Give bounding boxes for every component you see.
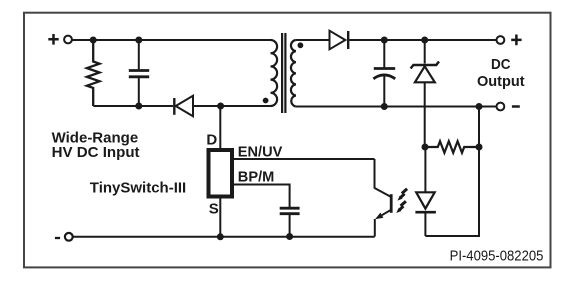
svg-text:TinySwitch-III: TinySwitch-III xyxy=(90,179,186,196)
diode clamp D xyxy=(174,96,270,116)
text pin BP/M xyxy=(238,169,274,186)
transistor optocoupler photo xyxy=(375,159,392,237)
zener output feedback xyxy=(411,40,439,147)
node junction cap out bottom xyxy=(381,103,388,110)
text Wide-Range HV DC Input xyxy=(52,129,140,161)
wire feedback right column xyxy=(425,107,479,237)
node junction top-cap xyxy=(135,37,142,44)
text pin EN/UV xyxy=(238,144,282,161)
text pin D xyxy=(206,131,217,148)
text DC Output xyxy=(477,56,525,90)
node + output terminal xyxy=(497,35,522,46)
wire clamp bottom xyxy=(93,105,173,107)
transformer T1 secondary xyxy=(291,40,303,107)
transformer T1 core xyxy=(282,33,285,113)
wire secondary top xyxy=(296,39,330,41)
node junction top-left xyxy=(90,37,97,44)
node - output terminal xyxy=(497,103,520,111)
svg-text:PI-4095-082205: PI-4095-082205 xyxy=(450,248,544,265)
svg-text:BP/M: BP/M xyxy=(238,169,274,186)
capacitor clamp C xyxy=(129,40,149,106)
light arrows optocoupler xyxy=(396,189,407,213)
node junction cap bottom xyxy=(135,103,142,110)
wire output minus rail xyxy=(296,106,497,108)
node junction minus rail xyxy=(476,103,483,110)
svg-text:Output: Output xyxy=(477,73,525,90)
text pin S xyxy=(209,201,219,218)
capacitor output electrolytic xyxy=(373,40,395,107)
node junction cap out xyxy=(381,37,388,44)
text PI-4095-082205 xyxy=(450,248,544,265)
svg-text:S: S xyxy=(209,201,219,218)
node junction source xyxy=(217,233,224,240)
IC TinySwitch-III U1 xyxy=(209,106,233,237)
transformer T1 primary xyxy=(263,40,277,106)
svg-text:DC: DC xyxy=(491,56,511,73)
node junction bp cap bottom xyxy=(286,233,293,240)
capacitor BP/M bypass xyxy=(280,208,300,236)
diode output rectifier xyxy=(330,31,349,50)
svg-text:D: D xyxy=(206,131,217,148)
node junction zener out xyxy=(421,37,428,44)
node - input terminal xyxy=(55,233,73,241)
resistor clamp R xyxy=(87,40,100,106)
node junction drain xyxy=(217,103,224,110)
wire EN/UV line xyxy=(234,158,375,160)
LED optocoupler diode xyxy=(415,147,436,236)
wire top input rail xyxy=(72,39,270,41)
wire BP/M line xyxy=(234,185,290,208)
wire bottom source rail xyxy=(73,236,375,238)
node junction fb left xyxy=(422,144,429,151)
resistor feedback bias xyxy=(425,141,479,153)
svg-text:EN/UV: EN/UV xyxy=(238,144,282,161)
node + input terminal xyxy=(48,34,72,45)
wire output top rail xyxy=(349,39,496,41)
node junction fb right xyxy=(476,144,483,151)
text TinySwitch-III xyxy=(90,179,186,196)
svg-text:HV DC Input: HV DC Input xyxy=(52,144,140,161)
